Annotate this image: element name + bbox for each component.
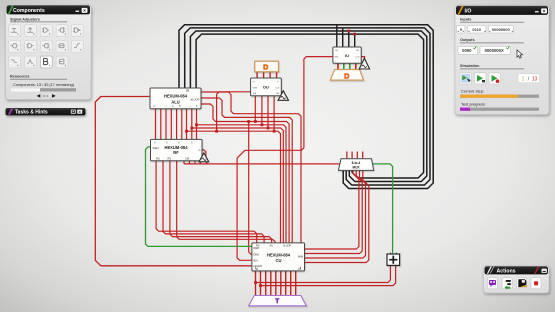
wire: IU display pins red/green/green/red — [338, 63, 356, 69]
wire: data bus DB bit1 — [185, 28, 430, 185]
wire: MUX out0 to CU right — [305, 171, 359, 249]
icon: latch — [56, 40, 68, 52]
svg-text:DA: DA — [253, 92, 257, 95]
svg-text:Tasks & Hints: Tasks & Hints — [15, 109, 48, 115]
mouse cursor — [517, 50, 523, 58]
actions buttons — [488, 278, 542, 290]
test progress bar — [460, 101, 539, 110]
svg-text:ALUOP: ALUOP — [283, 244, 292, 247]
wire: IU CLK stub — [361, 57, 364, 59]
icon: inverting gate — [72, 25, 84, 37]
wire: lane1 ALU right to CU top via x293.5 — [201, 92, 301, 243]
svg-text:Test progress: Test progress — [461, 101, 485, 106]
wire: green MUX to incrementer — [372, 164, 392, 255]
wire: ALU-RF vertical columns (8 red) — [156, 109, 197, 140]
svg-text:IEN: IEN — [253, 258, 257, 262]
incrementer +1 box — [387, 253, 400, 267]
svg-text:Actions: Actions — [497, 268, 516, 274]
panel: I/O — [455, 5, 549, 115]
wire: RF C pin to MUX select — [202, 150, 342, 164]
svg-text:DB: DB — [186, 89, 190, 93]
svg-text:Resources: Resources — [10, 75, 29, 79]
svg-text:RF: RF — [173, 150, 179, 155]
input unit chip U5 IU — [333, 47, 361, 63]
svg-text:DB: DB — [335, 50, 339, 52]
wire: OU DA1 down to lane4 — [261, 96, 264, 126]
COMPONENTS-LAYER — [150, 47, 400, 306]
wire: MUX out2 to CU right — [305, 171, 366, 258]
wire: OU DA0 down to lane3 — [254, 96, 257, 123]
svg-text:1: 1 — [522, 76, 525, 82]
seven-seg display D (for OU) — [255, 61, 279, 72]
wire: incrementer out1 to CU pin — [259, 266, 396, 287]
wire: RF DB stubs to select rail — [184, 161, 208, 164]
svg-text:Outputs: Outputs — [460, 38, 475, 42]
svg-text:DA: DA — [276, 92, 280, 95]
icon: gate variant a — [9, 40, 21, 52]
wire: RF bottom RS1 to CU top — [177, 161, 275, 244]
wire: OU DA3 down to lane6 — [273, 96, 276, 133]
wire: lane3 ALU right to CU top via x287.5 — [201, 104, 289, 243]
wire: OU DA2 down to lane5 — [267, 96, 270, 130]
icon: signal high adjuster — [25, 25, 37, 37]
panel: Actions — [484, 266, 550, 294]
svg-text:×: × — [543, 9, 546, 15]
wire: IU DB pins up to bus (black) — [337, 25, 355, 47]
clock trapezoid T (purple) — [249, 296, 307, 306]
wire: MUX top stubs — [347, 152, 363, 159]
svg-text:ALU: ALU — [171, 100, 179, 105]
icon: buffer gate — [40, 25, 52, 37]
pager arrows — [37, 94, 56, 98]
svg-text:IU: IU — [345, 53, 349, 58]
wire: green RF WEN to CU WEN — [146, 147, 252, 247]
svg-text:T: T — [275, 298, 279, 305]
svg-text:Components: Components — [13, 8, 45, 14]
wire: data bus DB bit2 — [190, 31, 426, 182]
svg-text:0110: 0110 — [472, 27, 481, 32]
outputs section — [458, 38, 524, 54]
components section label — [10, 17, 67, 22]
svg-text:IEN: IEN — [335, 56, 339, 58]
clock triangle for OU — [278, 91, 288, 101]
svg-text:Signal Adjusters: Signal Adjusters — [10, 17, 40, 21]
panel: Tasks & Hints (collapsed) — [6, 108, 86, 115]
svg-text:OU: OU — [263, 85, 269, 90]
icon: flip-flop selected — [40, 56, 52, 68]
wire: MUX out1 to CU right — [305, 171, 363, 254]
svg-text:IMM: IMM — [298, 254, 303, 258]
wire: data bus DB bit3 — [196, 34, 424, 178]
svg-text:Components: 13 / 30 (17 remain: Components: 13 / 30 (17 remaining) — [13, 83, 75, 87]
icon: edge signal — [72, 40, 84, 52]
svg-text:CLK: CLK — [275, 88, 280, 90]
wire: CU bottom pins to T (8) — [256, 271, 296, 296]
svg-text:Simulation: Simulation — [460, 64, 480, 68]
svg-text:WEN: WEN — [253, 246, 259, 250]
svg-text:I/O: I/O — [465, 8, 472, 14]
op chip U1 HEXUM-084 ALU — [150, 88, 201, 109]
register file chip U2 HEXUM-084 RF — [151, 139, 203, 160]
wire: lane5 ALU pin7 to CU top via x281.5 — [190, 127, 283, 244]
WIRES-LAYER — [95, 25, 433, 296]
svg-text:3 / 4: 3 / 4 — [43, 94, 49, 98]
simulation section — [460, 64, 540, 84]
clock triangle for RF — [199, 153, 209, 162]
wire: IU IEN long net to CU IEN — [237, 57, 333, 261]
control unit chip U3 HEXUM-084 CU — [252, 243, 305, 271]
svg-text:HEXUM-084: HEXUM-084 — [164, 93, 188, 98]
icon: falling edge — [9, 56, 21, 68]
svg-text:0000000X: 0000000X — [485, 48, 504, 53]
wire: OU display pins — [257, 72, 277, 78]
svg-text:DB: DB — [356, 50, 360, 52]
wire: RF bottom RO1 to CU top — [163, 161, 264, 244]
svg-text:C: C — [199, 148, 201, 152]
wire: ALU left to CU ALUEN (long red left loop) — [95, 97, 252, 266]
svg-text:Current step:: Current step: — [461, 88, 484, 93]
wire: OU CLK stub — [281, 91, 283, 93]
svg-text:CU: CU — [276, 258, 282, 263]
svg-text:D: D — [344, 74, 349, 81]
icon: signal low adjuster — [9, 25, 21, 37]
resources section — [10, 75, 76, 92]
output unit chip U4 OU — [251, 78, 282, 96]
svg-text:00000000: 00000000 — [492, 27, 511, 32]
svg-text:×: × — [83, 8, 86, 14]
icon: gate variant b — [25, 40, 37, 52]
wire: RF bottom RO0 to CU top — [156, 161, 257, 244]
current step bar — [460, 88, 539, 97]
wire: OU OEN feed from lane6 — [215, 92, 250, 133]
wire: lane2 ALU right to CU top via x290.5 — [201, 98, 292, 243]
svg-text:8-to-4: 8-to-4 — [352, 161, 361, 165]
svg-text:OEN: OEN — [252, 88, 257, 90]
svg-text:RS: RS — [168, 156, 172, 160]
svg-text:0000: 0000 — [462, 48, 472, 53]
icon: pulse — [25, 56, 37, 68]
multiplexer 8-to-4 MUX — [338, 159, 373, 171]
junction: IU pin4 on bus — [353, 33, 356, 36]
svg-text:WEN: WEN — [153, 146, 159, 150]
wire: data bus DB bit0 (black, ALU top to MUX via top/right wrap) — [179, 25, 433, 189]
svg-text:MUX: MUX — [352, 165, 360, 169]
svg-text:13: 13 — [532, 76, 538, 82]
icon: gate variant c — [40, 40, 52, 52]
wire: lane6 ALU pin6 to CU top via x278.5 — [185, 130, 280, 244]
svg-text:Inputs: Inputs — [460, 18, 471, 22]
wire: RF bottom RS0 to CU top — [170, 161, 272, 244]
clock triangle for IU — [359, 58, 369, 69]
wire: feeder lane3 to CU OEN — [247, 120, 252, 254]
icon: enable block — [56, 56, 68, 68]
junction: IU pin3 on bus — [347, 30, 350, 33]
svg-text:D: D — [263, 65, 268, 72]
svg-text:DB: DB — [186, 156, 190, 160]
svg-text:AS: AS — [270, 244, 274, 247]
inputs section — [457, 18, 524, 33]
icon: reverse gate — [56, 25, 68, 37]
panel: Components — [6, 5, 92, 100]
wire: incrementer out0 to CU pin (long bottom run) — [254, 266, 390, 284]
wire: lane4 ALU pin8 to CU top via x284.5 — [195, 123, 286, 243]
svg-text:OEN: OEN — [253, 253, 259, 257]
wire: MUX out3 to CU right — [305, 171, 369, 263]
svg-text:RO: RO — [156, 156, 160, 160]
svg-text:ALUOP: ALUOP — [191, 98, 200, 102]
svg-text:ALUEN: ALUEN — [253, 264, 262, 268]
display trapezoid D (for IU) — [330, 70, 363, 81]
svg-text:CLK: CLK — [355, 56, 360, 58]
components icon grid — [9, 25, 84, 68]
